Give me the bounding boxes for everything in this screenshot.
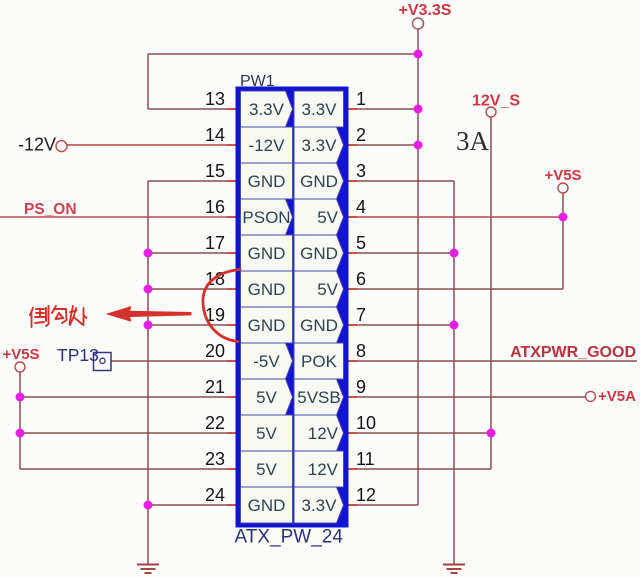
wire pin 21: [20, 396, 236, 398]
svg-text:5: 5: [356, 233, 366, 253]
wire pin 18: [148, 288, 236, 290]
pin 23 cell 5V: [241, 451, 293, 487]
svg-text:+V5A: +V5A: [598, 388, 636, 405]
svg-text:GND: GND: [248, 496, 286, 515]
svg-text:12V: 12V: [308, 424, 339, 443]
pin 14 cell -12V: [241, 127, 293, 163]
pin 2 stub: [349, 144, 358, 146]
pin 6 cell 5V: [294, 271, 344, 307]
pin 12 cell 3.3V: [294, 487, 344, 523]
svg-text:13: 13: [205, 89, 225, 109]
pin 7 cell GND: [294, 307, 344, 343]
wire pin 23: [20, 468, 236, 470]
pin 13 stub: [227, 108, 236, 110]
wire pin 8 ATXPWR_GOOD: [349, 360, 638, 362]
pin 7 stub: [349, 324, 358, 326]
testpoint TP13 box: [94, 353, 112, 371]
junction (20,397.0): [16, 393, 25, 402]
svg-text:14: 14: [205, 125, 225, 145]
wire pin 20 to TP13: [105, 360, 236, 362]
svg-text:POK: POK: [301, 352, 338, 371]
pin 8 cell POK: [294, 343, 344, 379]
svg-text:ATXPWR_GOOD: ATXPWR_GOOD: [510, 344, 636, 361]
terminal +V5A circle: [586, 391, 596, 401]
svg-text:17: 17: [205, 233, 225, 253]
net +V3.3S vertical rail: [417, 29, 419, 505]
pin 10 stub: [349, 432, 358, 434]
net GND left rail: [147, 181, 149, 565]
net +V5S right rail: [562, 193, 564, 289]
svg-text:GND: GND: [300, 316, 338, 335]
pin 5 cell GND: [294, 235, 344, 271]
svg-text:2: 2: [356, 125, 366, 145]
pin 8 stub: [349, 360, 358, 362]
svg-text:12V_S: 12V_S: [472, 93, 520, 110]
power port +V3.3S terminal: [413, 18, 424, 29]
ground symbol at x=454: [443, 565, 465, 574]
svg-text:1: 1: [356, 89, 366, 109]
svg-text:+V3.3S: +V3.3S: [399, 2, 452, 19]
wire pin 14 (-12V): [67, 144, 236, 146]
junction (148,325.0): [144, 321, 153, 330]
wire pin 5: [349, 252, 455, 254]
junction (418,109.0): [414, 105, 423, 114]
pin 11 stub: [349, 468, 358, 470]
wire pin 24: [148, 504, 236, 506]
svg-text:GND: GND: [248, 280, 286, 299]
ground symbol at x=148: [137, 565, 159, 574]
pin 21 stub: [227, 396, 236, 398]
annotation text dao-gou-chu (red): [30, 306, 87, 327]
junction (148,289.0): [144, 285, 153, 294]
pin 14 stub: [227, 144, 236, 146]
net 12V_S rail: [490, 117, 492, 469]
pin 16 cell PSON: [241, 199, 293, 235]
pin 3 stub: [349, 180, 358, 182]
wire pin 22: [20, 432, 236, 434]
pin 9 stub: [349, 396, 358, 398]
pin 22 stub: [227, 432, 236, 434]
wire pin13 riser: [147, 54, 149, 109]
testpoint TP13 pad: [100, 358, 105, 363]
pin 13 cell 3.3V: [241, 91, 293, 127]
wire pin 7: [349, 324, 455, 326]
svg-text:PSON: PSON: [242, 208, 290, 227]
wire pin 6: [349, 288, 564, 290]
pin 9 cell 5VSB: [294, 379, 344, 415]
wire pin 4: [349, 216, 564, 218]
junction (491,433.0): [487, 429, 496, 438]
svg-text:GND: GND: [300, 172, 338, 191]
svg-text:11: 11: [356, 449, 375, 469]
svg-text:-12V: -12V: [249, 136, 286, 155]
pin 16 stub: [227, 216, 236, 218]
pin 19 stub: [227, 324, 236, 326]
net +V3.3S top branch wire: [148, 53, 418, 55]
svg-text:3.3V: 3.3V: [249, 100, 285, 119]
pin 1 stub: [349, 108, 358, 110]
svg-text:GND: GND: [300, 244, 338, 263]
svg-text:5V: 5V: [317, 280, 338, 299]
svg-text:3.3V: 3.3V: [302, 496, 338, 515]
pin 23 stub: [227, 468, 236, 470]
junction (20,433.0): [16, 429, 25, 438]
power port +V5S right terminal: [558, 183, 568, 193]
pin 24 stub: [227, 504, 236, 506]
svg-text:6: 6: [356, 269, 366, 289]
svg-text:PS_ON: PS_ON: [24, 201, 77, 218]
pin 19 cell GND: [241, 307, 293, 343]
wire pin 3: [349, 180, 455, 182]
junction (148,505.0): [144, 501, 153, 510]
power port 12V_S terminal: [486, 107, 496, 117]
pin 2 cell 3.3V: [294, 127, 344, 163]
annotation arrow (red): [106, 306, 192, 322]
power port +V5S left terminal: [15, 362, 25, 372]
svg-text:5VSB: 5VSB: [297, 388, 340, 407]
wire pin 11: [349, 468, 492, 470]
svg-text:PW1: PW1: [240, 73, 275, 90]
svg-text:21: 21: [205, 377, 225, 397]
pin 18 cell GND: [241, 271, 293, 307]
svg-text:ATX_PW_24: ATX_PW_24: [235, 527, 344, 548]
pin 12 stub: [349, 504, 358, 506]
pin 20 stub: [227, 360, 236, 362]
wire pin 2: [349, 144, 419, 146]
pin 22 cell 5V: [241, 415, 293, 451]
svg-text:9: 9: [356, 377, 366, 397]
wire pin 16 PS_ON: [0, 216, 236, 218]
svg-text:5V: 5V: [256, 460, 277, 479]
svg-text:-5V: -5V: [253, 352, 280, 371]
pin 20 cell -5V: [241, 343, 293, 379]
wire pin 19: [148, 324, 236, 326]
pin 15 cell GND: [241, 163, 293, 199]
svg-text:3: 3: [356, 161, 366, 181]
svg-text:+V5S: +V5S: [544, 167, 581, 184]
svg-text:5V: 5V: [256, 424, 277, 443]
pin 1 cell 3.3V: [294, 91, 344, 127]
svg-text:20: 20: [205, 341, 225, 361]
pin 15 stub: [227, 180, 236, 182]
svg-text:GND: GND: [248, 172, 286, 191]
svg-text:3.3V: 3.3V: [302, 136, 338, 155]
svg-text:15: 15: [205, 161, 225, 181]
svg-text:23: 23: [205, 449, 225, 469]
svg-text:TP13: TP13: [57, 345, 99, 365]
svg-text:24: 24: [205, 485, 225, 505]
pin 4 stub: [349, 216, 358, 218]
svg-text:5V: 5V: [256, 388, 277, 407]
svg-text:5V: 5V: [317, 208, 338, 227]
junction (563,217.0): [559, 213, 568, 222]
junction (454,325.0): [450, 321, 459, 330]
junction (418,145.0): [414, 141, 423, 150]
junction (454,253.0): [450, 249, 459, 258]
pin 6 stub: [349, 288, 358, 290]
junction (418,54): [414, 50, 423, 59]
pin 18 stub: [227, 288, 236, 290]
svg-text:+V5S: +V5S: [2, 346, 39, 363]
pin 5 stub: [349, 252, 358, 254]
wire pin 12: [349, 504, 419, 506]
net GND right rail: [453, 181, 455, 565]
wire pin 13: [148, 108, 236, 110]
svg-text:12V: 12V: [308, 460, 339, 479]
svg-text:-12V: -12V: [18, 135, 56, 155]
svg-text:3A: 3A: [456, 126, 490, 156]
svg-text:GND: GND: [248, 316, 286, 335]
pin 4 cell 5V: [294, 199, 344, 235]
svg-text:22: 22: [205, 413, 225, 433]
pin 10 cell 12V: [294, 415, 344, 451]
svg-text:8: 8: [356, 341, 366, 361]
wire pin 1: [349, 108, 419, 110]
pin 11 cell 12V: [294, 451, 344, 487]
svg-text:4: 4: [356, 197, 366, 217]
pin 24 cell GND: [241, 487, 293, 523]
svg-text:GND: GND: [248, 244, 286, 263]
pin 21 cell 5V: [241, 379, 293, 415]
svg-text:16: 16: [205, 197, 225, 217]
svg-text:12: 12: [356, 485, 376, 505]
connector PW1 body: [236, 87, 349, 528]
annotation hook circle (red): [203, 270, 240, 342]
wire pin 10: [349, 432, 492, 434]
svg-text:10: 10: [356, 413, 376, 433]
wire pin 15: [148, 180, 236, 182]
net +V5S left rail: [19, 372, 21, 469]
pin 3 cell GND: [294, 163, 344, 199]
svg-text:7: 7: [356, 305, 366, 325]
wire pin 17: [148, 252, 236, 254]
pin 17 cell GND: [241, 235, 293, 271]
wire pin 9 to +V5A: [349, 396, 586, 398]
terminal -12V circle: [56, 141, 67, 152]
svg-text:3.3V: 3.3V: [302, 100, 338, 119]
junction (148,253.0): [144, 249, 153, 258]
pin 17 stub: [227, 252, 236, 254]
